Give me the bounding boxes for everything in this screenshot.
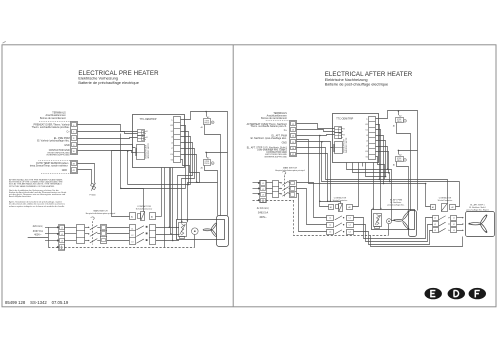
wire terminal9 to J3 [78, 145, 136, 148]
wire pe loop [371, 236, 463, 247]
svg-text:L5: L5 [171, 142, 173, 144]
svg-text:L7: L7 [171, 148, 173, 150]
wire pin5 r [376, 141, 386, 177]
terminal 12 [291, 122, 296, 126]
ground terminal PE right [261, 199, 266, 203]
pre-heater unit box [177, 220, 225, 240]
terminal 6 [72, 123, 77, 127]
svg-text:post-chauffage élec. Etape1: post-chauffage élec. Etape1 [258, 149, 288, 152]
wire pin2 r [376, 125, 380, 180]
connector J5 lower [335, 133, 342, 139]
svg-text:Therm. surchauffe batterie pré: Therm. surchauffe batterie préchau. [32, 126, 70, 129]
fan enclosure M2 [409, 211, 417, 237]
svg-text:S463 5-A: S463 5-A [258, 212, 269, 215]
contactor K1 output block [150, 225, 156, 245]
contactor K7 output L2 [451, 222, 457, 227]
svg-text:PROG: PROG [205, 122, 210, 124]
svg-text:mêmes repères indiqués sur la: mêmes repères indiqués sur la borne du m… [9, 205, 65, 208]
switch Q1 contacts [85, 227, 89, 229]
terminal 48 [72, 162, 77, 166]
terminal strip X3 outer [290, 121, 297, 157]
contactor K4 output L3 [347, 230, 354, 235]
svg-text:L4: L4 [366, 135, 368, 137]
wires step heater feed [457, 217, 463, 219]
switch Q2 actuator curve [282, 171, 286, 174]
svg-text:A2: A2 [348, 206, 350, 209]
wire pin7 r [376, 152, 389, 173]
wire terminal13 to J4 [297, 130, 335, 132]
wire terminal14 to K4 A1 [320, 136, 329, 207]
svg-text:temp.Sensor/Temp. sonde extéri: temp.Sensor/Temp. sonde extérieur [30, 164, 68, 167]
terminal 10 [72, 149, 77, 154]
svg-text:WITH THE SAME NUMBERS ON THE H: WITH THE SAME NUMBERS ON THE HEATER. [9, 185, 55, 188]
wire J5 aux to K7 A1 [297, 140, 426, 184]
wires contactor to heater [156, 227, 179, 229]
heating element base [180, 237, 185, 239]
wire TTC to contactor A2 supply [161, 168, 163, 217]
fan enclosure [217, 216, 229, 247]
junction L+ right [398, 110, 400, 112]
ground bus (dashed PE) [65, 247, 195, 249]
connector J3 interference filter [137, 145, 145, 160]
wire exit 4 [366, 163, 386, 177]
heating element base right [375, 227, 380, 229]
contactor K4 contact blade [335, 223, 342, 227]
junction relay K3 node [205, 152, 207, 154]
wire contactor A2 out [156, 216, 162, 218]
language badge D [448, 288, 465, 299]
wire pin6 r [376, 147, 388, 170]
svg-text:L3: L3 [329, 232, 331, 234]
svg-text:Schütz/Contacteur: Schütz/Contacteur [438, 199, 453, 202]
contactor K4 input L2 [327, 223, 334, 228]
bus wires to contactor [107, 227, 129, 229]
wire pin2 [181, 126, 186, 189]
svg-text:U1: U1 [171, 131, 173, 133]
sheet divider line [232, 45, 234, 307]
fuse block F2 [273, 181, 279, 198]
wire long horizontal H4 [128, 184, 191, 186]
svg-text:L1: L1 [131, 228, 133, 230]
wire terminal17 contactor gnd [297, 154, 328, 202]
wire relay K6 feed [399, 151, 418, 155]
wire pin6 heater drop [181, 149, 195, 223]
wire terminal7 to J1 [78, 132, 138, 134]
wire contactor K4 coil feed [320, 202, 341, 204]
wire gnd drop [330, 148, 332, 202]
svg-text:3X37.8 A: 3X37.8 A [33, 230, 43, 233]
svg-text:L1: L1 [61, 228, 63, 230]
wire TTC exit stub [362, 163, 364, 167]
svg-text:Hauptschalter/interrupteur pri: Hauptschalter/interrupteur principal [275, 169, 305, 172]
step-1 heater fan box [466, 212, 495, 237]
svg-text:post-chauffage élec.: post-chauffage élec. [388, 203, 405, 206]
svg-text:A1: A1 [201, 126, 203, 129]
svg-text:L2: L2 [262, 189, 264, 191]
contactor K1 coil [130, 213, 136, 220]
wire pin4 r [376, 136, 384, 184]
svg-text:4x6 mm²,: 4x6 mm², [33, 225, 44, 228]
svg-text:Batterie de préchauffage elect: Batterie de préchauffage electrique [78, 80, 139, 85]
wire TTC ground drop [164, 168, 166, 248]
terminal 49 [72, 168, 77, 173]
svg-text:L2: L2 [61, 234, 63, 236]
wire long horizontal H5 [121, 188, 186, 190]
wire terminal49 to PT1000 [78, 170, 92, 184]
svg-text:Batterie de post-chauffage ele: Batterie de post-chauffage electrique [325, 81, 389, 86]
wire contactor K7 A1 feed [426, 184, 431, 207]
wire relay K3 feed [207, 153, 228, 158]
switch output block right [290, 181, 297, 198]
svg-text:INTERFER. SUPPR.: INTERFER. SUPPR. [346, 137, 348, 153]
svg-text:TTC-OEM/TRIP: TTC-OEM/TRIP [336, 117, 353, 120]
wire TTC exit 2 [353, 163, 390, 182]
bus wires to fuse block right [266, 182, 272, 184]
controller U2 output terminal column [369, 117, 376, 160]
svg-text:L2: L2 [131, 235, 133, 237]
svg-text:A1: A1 [393, 164, 395, 167]
contactor K7 input L3 [433, 228, 439, 233]
svg-text:L2: L2 [434, 224, 436, 226]
input terminal block right L1 L2 L3 PE [260, 181, 267, 203]
svg-text:400V~: 400V~ [259, 216, 267, 219]
svg-text:L7: L7 [366, 146, 368, 148]
wire terminal48 to PT1000 [78, 164, 95, 184]
wire pin4 [181, 137, 191, 185]
svg-text:L1: L1 [453, 218, 455, 220]
svg-text:L3: L3 [131, 242, 133, 244]
svg-text:Bornes de raccordement: Bornes de raccordement [40, 117, 66, 120]
switch Q1 actuator curve [91, 217, 95, 220]
wire supply continues to fan unit [227, 153, 229, 216]
terminal 8 [72, 136, 77, 141]
relay K5 feed [398, 111, 400, 115]
wire terminal10 ground drop [127, 151, 129, 185]
svg-text:Hauptschalter/interrupteur pri: Hauptschalter/interrupteur principal [86, 212, 116, 215]
wire pin8 r [376, 157, 385, 180]
wire pin3 [181, 132, 189, 185]
svg-text:El. Vorheiz /préchauffage élec: El. Vorheiz /préchauffage élec. [37, 140, 70, 143]
svg-text:INTERFER.SUPPR.GND: INTERFER.SUPPR.GND [264, 156, 287, 158]
separator rule [41, 173, 70, 175]
wire L2 cascade [297, 189, 327, 225]
contactor K4 output L2 [347, 223, 354, 228]
svg-text:PROG: PROG [397, 121, 402, 123]
svg-text:post-chauffage élec. Etape1: post-chauffage élec. Etape1 [466, 208, 488, 211]
junction L+ node [205, 111, 207, 113]
svg-text:A1: A1 [393, 124, 395, 127]
terminal 7 [72, 130, 77, 134]
svg-text:Anschlußplan beachten: Anschlußplan beachten [9, 195, 32, 198]
svg-text:INTERFER.SUPPR.GND: INTERFER.SUPPR.GND [47, 155, 70, 157]
mains input stubs right [253, 182, 260, 184]
connector J4 upper [335, 127, 342, 133]
switch Q1 coupling (dashed) [92, 221, 94, 244]
contactor K7 input L1 [433, 216, 439, 221]
heating element R1 [179, 223, 187, 237]
svg-text:L1: L1 [434, 218, 436, 220]
wires contactor K4 output loop under heater [354, 218, 433, 239]
svg-text:PROG: PROG [397, 160, 402, 162]
svg-text:A2: A2 [451, 206, 453, 209]
svg-text:Schütz/Contacteur: Schütz/Contacteur [136, 208, 153, 211]
svg-text:A2: A2 [399, 114, 401, 117]
svg-text:GND: GND [64, 144, 70, 147]
terminal strip X2 outer [71, 161, 78, 174]
wire pin3 r heater drop [376, 130, 381, 209]
wire terminal12 to J4 [297, 124, 335, 129]
wire pin5 heater drop [178, 143, 193, 220]
contactor K4 input L1 [327, 216, 334, 221]
connector J2 lower [138, 136, 145, 142]
svg-text:G0: G0 [366, 157, 368, 159]
wire auxiliary coil feed k1 [121, 134, 144, 212]
contactor K7 contact blade [439, 222, 446, 226]
wire terminal6 to J1 [78, 125, 138, 132]
svg-text:A1: A1 [330, 206, 332, 209]
svg-text:L5: L5 [366, 140, 368, 142]
svg-text:TTC-OEM/TRIP: TTC-OEM/TRIP [140, 118, 157, 121]
wire relay K2 output [205, 125, 221, 216]
svg-text:Bornes de raccordement: Bornes de raccordement [261, 117, 287, 120]
wire pin7 heater drop [181, 155, 197, 222]
wire terminal15 to K7 A2 return [322, 142, 460, 182]
wire L+ supply loop [181, 112, 228, 153]
language badge E [425, 288, 442, 299]
svg-text:L99: L99 [365, 124, 368, 126]
separator rule right [266, 120, 290, 122]
svg-text:L+: L+ [366, 119, 368, 121]
wire pin8 [181, 160, 200, 183]
svg-text:A1: A1 [201, 167, 203, 170]
svg-text:Therm. surchauffe batterie pos: Therm. surchauffe batterie post-ch. [250, 125, 287, 128]
relay K2 feed [206, 112, 208, 117]
svg-text:400V~: 400V~ [34, 234, 42, 237]
switch Q2 coupling (dashed) [284, 175, 286, 196]
temperature sensor B1 [192, 228, 199, 235]
svg-text:GND: GND [62, 169, 68, 172]
wire relay K5 output [397, 123, 411, 211]
wire supply to step fan [417, 151, 419, 211]
contactor K1 main contacts [136, 226, 144, 230]
wire TTC tap L2 [170, 168, 172, 234]
temperature sensor B2 [387, 219, 392, 224]
wire sensor to ground bus [194, 235, 196, 248]
mains input stubs with junction dots [45, 227, 59, 229]
svg-text:4x 16 mm²,: 4x 16 mm², [257, 207, 270, 210]
svg-text:MAIN SWITCH: MAIN SWITCH [93, 210, 108, 213]
switch output block [101, 225, 107, 244]
svg-text:A1: A1 [432, 206, 434, 209]
sensor PT1000 [91, 183, 96, 191]
terminal 9 [72, 143, 77, 147]
contactor K7 coil [431, 205, 436, 210]
wire terminal8 to J2 [78, 138, 138, 139]
svg-text:L10: L10 [170, 154, 173, 156]
contactor K7 contact blade [439, 216, 446, 220]
svg-text:Anschlussklemmen: Anschlussklemmen [45, 114, 66, 117]
svg-text:L1: L1 [262, 183, 264, 185]
wire L1 cascade [297, 183, 327, 218]
contactor K4 coil [329, 205, 334, 210]
mains cable trunk [48, 227, 50, 247]
separator rule [38, 160, 70, 162]
ground bus drop [294, 201, 389, 236]
fan blade tip dot [393, 219, 395, 221]
svg-text:L4: L4 [171, 137, 173, 139]
terminal 16 [291, 147, 296, 150]
svg-text:L1: L1 [329, 218, 331, 220]
wire straight drop into heater [373, 163, 375, 209]
wire TTC tap L3 [172, 168, 174, 241]
svg-text:L3: L3 [349, 232, 351, 234]
controller output terminal column [174, 117, 181, 163]
terminal strip X1 outer [71, 122, 78, 155]
contactor K7 contact blade [439, 228, 446, 232]
language badge F [469, 288, 486, 299]
contactor K4 output L1 [347, 216, 354, 221]
contactor K7 output L3 [451, 228, 457, 233]
svg-text:G0: G0 [171, 160, 173, 162]
svg-text:A2: A2 [399, 154, 401, 157]
bus wires to fuse block [65, 227, 77, 229]
junction relay K6 node [398, 150, 400, 152]
wire terminal10 to J3 [78, 151, 137, 153]
contactor K1 input block [130, 225, 136, 245]
separator rule [39, 121, 70, 123]
svg-text:L10: L10 [365, 151, 368, 153]
wire terminal16 step1 [297, 148, 448, 204]
svg-text:L3: L3 [262, 195, 264, 197]
terminal 17 [291, 153, 296, 156]
svg-text:U1: U1 [366, 129, 368, 131]
terminal 13 [291, 128, 296, 132]
wire terminal15 GND [297, 142, 334, 148]
svg-text:INTERFER. SUPPR.: INTERFER. SUPPR. [148, 142, 150, 158]
svg-text:L3: L3 [434, 230, 436, 232]
contactor K4 contact blade [335, 216, 342, 220]
svg-text:L3: L3 [453, 230, 455, 232]
wire terminal14 to J5 [297, 135, 335, 136]
heating element R2 [374, 214, 382, 227]
ground bus right (dashed PE) [266, 200, 294, 202]
svg-text:PT1000: PT1000 [89, 195, 95, 197]
svg-text:A2: A2 [151, 215, 153, 218]
fuse block F1 [77, 225, 85, 244]
svg-text:L1: L1 [349, 218, 351, 220]
svg-text:A2: A2 [207, 157, 209, 160]
wire relay K6 output [397, 162, 409, 211]
after-heater PWM unit box [372, 210, 415, 230]
svg-text:GND: GND [282, 142, 288, 144]
wire fan M2 feed [347, 163, 395, 221]
wire left auxiliary drop [112, 151, 133, 217]
wire L+ supply loop right [376, 111, 418, 151]
svg-text:L2: L2 [329, 225, 331, 227]
drawing frame border [2, 45, 496, 307]
svg-text:L3: L3 [61, 240, 63, 242]
mains cable line [28, 237, 49, 239]
wire relay K3 output [205, 166, 218, 216]
contactor K4 input L3 [327, 230, 334, 235]
switch Q2 contacts [279, 182, 282, 184]
wire H3 extension [197, 182, 218, 184]
input terminal block L1 L2 L3 PE [59, 225, 65, 251]
wire TTC tap L1 [169, 168, 171, 228]
svg-text:TERMINALS: TERMINALS [52, 112, 66, 115]
controller U2 TTC-OEM/TRIP box [333, 114, 379, 163]
svg-text:L+: L+ [171, 119, 173, 121]
svg-text:L99: L99 [170, 125, 173, 127]
contactor K4 contact blade [335, 230, 342, 234]
ground terminal PE [60, 245, 65, 250]
svg-text:85499 128 SS-1342 07.05.: 85499 128 SS-1342 07.05.19 [5, 300, 69, 305]
connector J6 interference filter [335, 142, 343, 154]
svg-text:L2: L2 [349, 225, 351, 227]
svg-text:El. Nachheiz. /post-chauffage: El. Nachheiz. /post-chauffage élec. [251, 137, 288, 140]
wire sensor B2 to ground [388, 224, 390, 236]
connector J1 upper [138, 130, 145, 136]
controller U1 TTC-OEM/TRIP box [133, 115, 185, 168]
svg-text:Schütz/Contacteur: Schütz/Contacteur [333, 199, 348, 202]
contactor K7 input L2 [433, 222, 439, 227]
terminal 15 [291, 140, 296, 144]
terminal 14 [291, 134, 296, 138]
svg-text:A1: A1 [131, 215, 133, 218]
contactor K7 output L1 [451, 216, 457, 221]
svg-text:L2: L2 [453, 224, 455, 226]
corner registration tick [3, 41, 6, 43]
wire L3 cascade [297, 194, 327, 232]
fan hub [211, 229, 213, 231]
wire TTC to K4 A2 supply [353, 163, 359, 207]
wire contactor K7 A2 out [456, 182, 460, 207]
fan M3 [470, 215, 488, 233]
svg-text:PROG: PROG [205, 163, 210, 165]
